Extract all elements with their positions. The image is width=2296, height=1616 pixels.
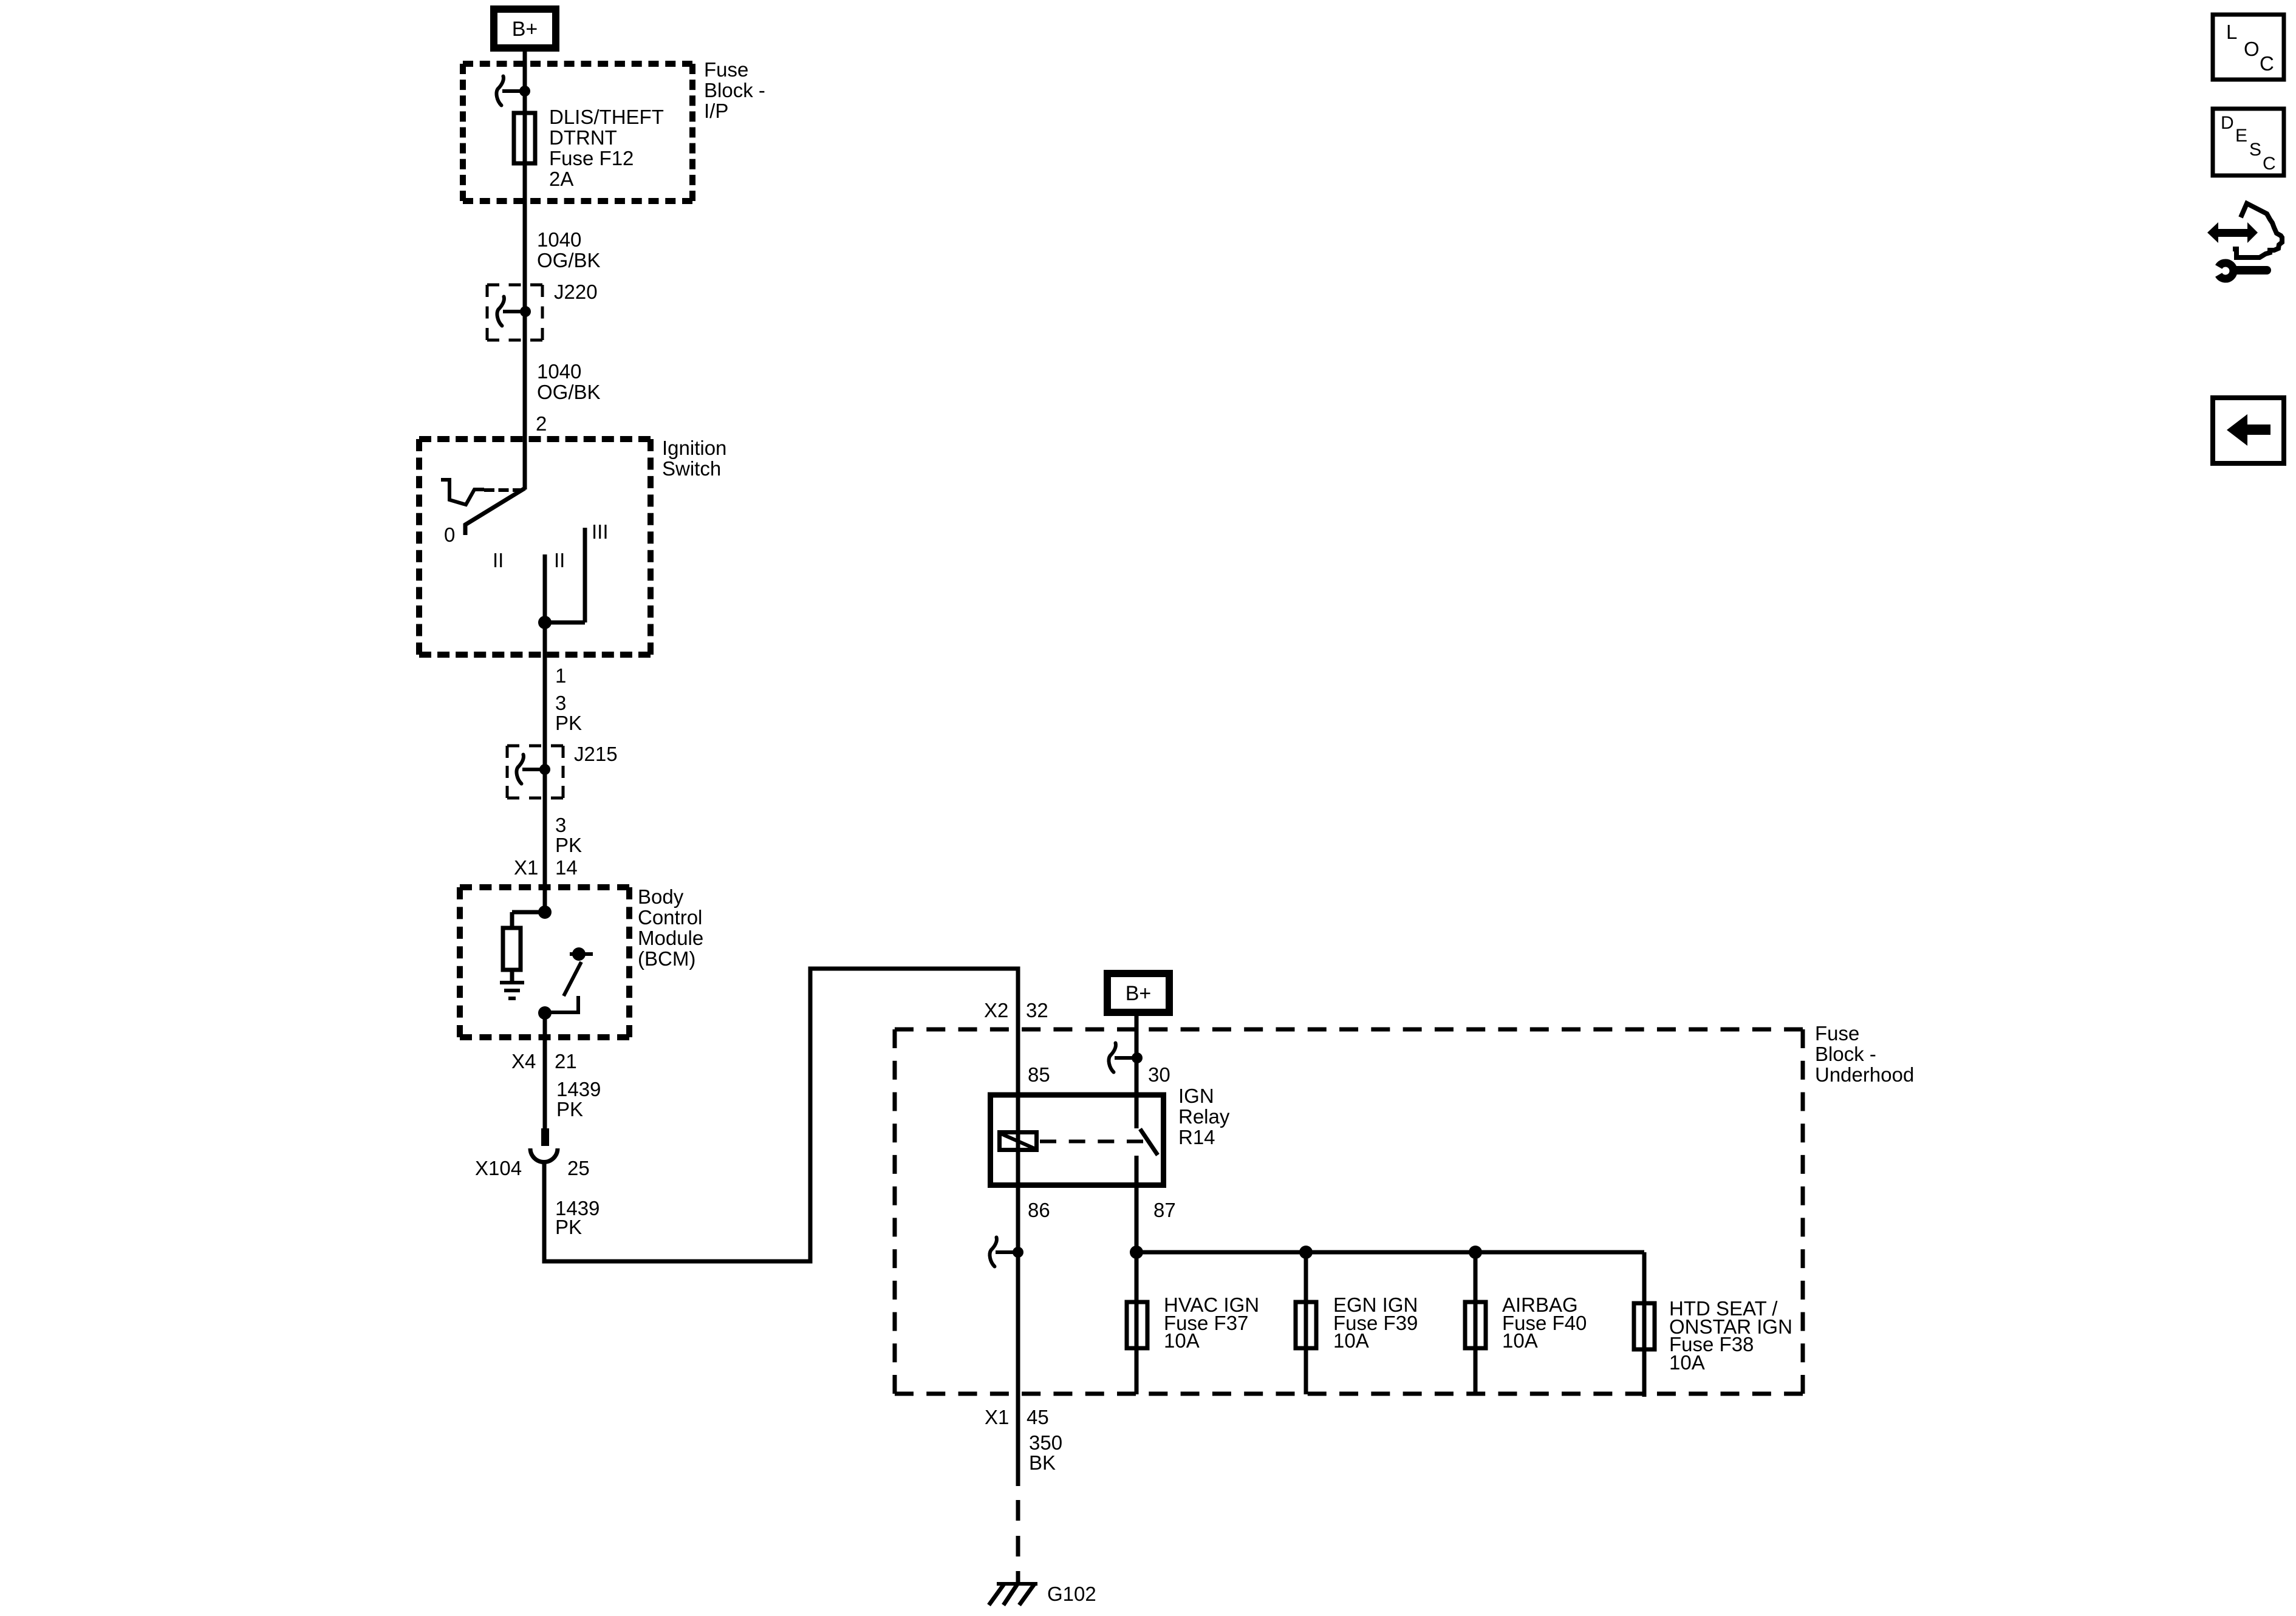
svg-text:C: C — [2260, 52, 2274, 75]
wire — [510, 912, 514, 928]
power symbol B+ (battery feed, Fuse Block - Underhood) — [1107, 973, 1169, 1012]
label fuse F12 value — [549, 106, 664, 190]
dashed mechanical link, relay coil to contact — [1040, 1140, 1143, 1144]
svg-text:PK: PK — [556, 1098, 583, 1120]
svg-text:10A: 10A — [1669, 1351, 1705, 1374]
svg-text:3: 3 — [555, 692, 566, 714]
junction node in ignition switch — [538, 616, 552, 629]
wire: resistor to internal ground — [510, 970, 514, 983]
svg-text:14: 14 — [555, 856, 578, 879]
svg-text:PK: PK — [555, 834, 582, 856]
ignition switch movable contact arm (position 0) — [465, 488, 525, 535]
svg-text:1040: 1040 — [537, 228, 581, 251]
svg-text:30: 30 — [1148, 1063, 1170, 1086]
svg-text:1040: 1040 — [537, 360, 581, 383]
ignition switch RUN contact wire — [543, 554, 547, 622]
icon button LOC — [2213, 15, 2284, 80]
wire: bus to fuse F40 — [1474, 1252, 1478, 1394]
splice/terminal hook at fuse block feed — [497, 77, 531, 106]
wire label 3 PK (lower) — [555, 814, 582, 856]
svg-text:S: S — [2249, 140, 2261, 160]
fuse F40 (AIRBAG 10A) — [1465, 1302, 1486, 1348]
svg-text:PK: PK — [555, 1216, 582, 1238]
svg-text:Underhood: Underhood — [1815, 1063, 1914, 1086]
svg-text:21: 21 — [555, 1050, 577, 1072]
splice J220 hook — [497, 297, 531, 326]
svg-text:Block -: Block - — [704, 79, 765, 101]
svg-text:1439: 1439 — [556, 1078, 601, 1100]
svg-text:3: 3 — [555, 814, 566, 836]
svg-text:C: C — [2263, 154, 2276, 174]
label Fuse Block - Underhood — [1815, 1022, 1914, 1086]
svg-text:I/P: I/P — [704, 100, 728, 122]
wire: relay 86 to X1 pin 45 (circuit 350 BK) — [1016, 1252, 1020, 1486]
dashed mechanical link, detent to contact arm — [484, 488, 523, 492]
junction node BCM input — [538, 905, 552, 919]
svg-text:Module: Module — [638, 927, 703, 949]
connector X1 pin 14 of BCM — [514, 856, 578, 879]
label fuse F40 — [1502, 1294, 1587, 1352]
svg-text:BK: BK — [1029, 1451, 1056, 1474]
svg-text:Fuse: Fuse — [704, 58, 748, 81]
svg-text:IGN: IGN — [1178, 1085, 1214, 1107]
wire label 1040 OG/BK (lower) — [537, 360, 601, 403]
fuse F39 (EGN IGN 10A) — [1296, 1302, 1316, 1348]
label Fuse Block - I/P — [704, 58, 765, 122]
wire label 1439 PK (upper) — [556, 1078, 601, 1120]
svg-text:X1: X1 — [985, 1406, 1009, 1428]
svg-text:DLIS/THEFT: DLIS/THEFT — [549, 106, 664, 128]
svg-text:Fuse F12: Fuse F12 — [549, 147, 634, 169]
svg-text:87: 87 — [1153, 1199, 1176, 1221]
svg-text:G102: G102 — [1047, 1583, 1096, 1605]
wire label 3 PK (upper) — [555, 692, 582, 734]
svg-text:Relay: Relay — [1178, 1105, 1230, 1128]
svg-text:10A: 10A — [1502, 1329, 1538, 1352]
label Body Control Module (BCM) — [638, 885, 703, 970]
wire (dashed continuation) to ground G102 — [1016, 1500, 1020, 1583]
BCM internal switch contact — [545, 947, 593, 1012]
svg-text:85: 85 — [1028, 1063, 1050, 1086]
wire: B+ to ignition switch (circuit 1040) — [523, 52, 527, 489]
svg-text:25: 25 — [567, 1157, 590, 1179]
wire: X104 to IGN relay coil (Z-run) — [544, 969, 1018, 1261]
svg-text:DTRNT: DTRNT — [549, 126, 617, 149]
ground G102 (chassis) — [989, 1583, 1037, 1605]
icon button back (left arrow) — [2213, 398, 2284, 463]
fuse F38 (HTD SEAT / ONSTAR IGN 10A) — [1634, 1303, 1655, 1349]
wire: ignition switch pin 1 to BCM (circuit 3 PK) — [543, 622, 547, 912]
svg-text:(BCM): (BCM) — [638, 947, 695, 970]
splice J215 hook — [517, 755, 551, 784]
connector X104 pin 25 (male/female halves) — [530, 1128, 558, 1162]
svg-text:II: II — [554, 549, 565, 571]
svg-text:J215: J215 — [574, 743, 618, 765]
component box Ignition Switch (dashed) — [419, 439, 651, 655]
junction node bus/F39 — [1299, 1246, 1313, 1259]
relay terminal labels 86 / 87 — [1028, 1199, 1176, 1221]
svg-text:D: D — [2221, 113, 2234, 133]
svg-text:Body: Body — [638, 885, 684, 908]
label fuse F38 — [1669, 1297, 1792, 1374]
svg-text:O: O — [2244, 38, 2260, 60]
wire: B+ to relay terminal 30 — [1135, 1014, 1139, 1128]
fuse F12 (DLIS/THEFT DTRNT 2A) — [514, 113, 535, 163]
svg-text:J220: J220 — [554, 281, 598, 303]
svg-text:II: II — [493, 549, 504, 571]
svg-text:Fuse: Fuse — [1815, 1022, 1859, 1045]
connector X4 pin 21 of BCM — [511, 1050, 577, 1072]
label Ignition Switch — [662, 437, 726, 480]
svg-text:Block -: Block - — [1815, 1043, 1876, 1065]
svg-text:10A: 10A — [1333, 1329, 1369, 1352]
svg-text:45: 45 — [1027, 1406, 1049, 1428]
svg-text:III: III — [592, 520, 609, 543]
power symbol B+ (battery feed, Fuse Block - I/P) — [494, 9, 556, 48]
svg-text:32: 32 — [1026, 999, 1048, 1021]
terminal hook at relay 30 feed — [1109, 1043, 1143, 1072]
wire: bus to fuse F38 — [1642, 1252, 1647, 1397]
junction node bus/F40 — [1469, 1246, 1482, 1259]
wire label 1439 PK (lower) — [555, 1197, 600, 1238]
svg-text:B+: B+ — [512, 18, 538, 41]
component box Body Control Module BCM (dashed) — [460, 887, 629, 1037]
junction node bus/87 — [1130, 1246, 1143, 1259]
splice box J220 (dashed) — [487, 285, 542, 340]
svg-text:X2: X2 — [984, 999, 1008, 1021]
relay R14 coil — [1000, 1133, 1037, 1150]
wire: bus to fuse F39 — [1304, 1252, 1308, 1394]
svg-text:OG/BK: OG/BK — [537, 249, 601, 271]
svg-text:350: 350 — [1029, 1431, 1062, 1454]
svg-text:10A: 10A — [1164, 1329, 1200, 1352]
wire: bus to fuse F37 — [1135, 1252, 1139, 1394]
terminal hook at relay 86 ground side — [990, 1238, 1024, 1267]
relay R14 (IGN Relay) body — [991, 1095, 1164, 1185]
wire bus: relay 87 to ignition fuses — [1136, 1250, 1644, 1255]
wire label 350 BK — [1029, 1431, 1062, 1474]
wire label 1040 OG/BK (upper) — [537, 228, 601, 271]
svg-text:Ignition: Ignition — [662, 437, 726, 459]
svg-text:PK: PK — [555, 712, 582, 734]
component box Fuse Block - I/P (dashed) — [463, 64, 692, 201]
connector X2 pin 32 of fuse block underhood — [984, 999, 1048, 1021]
component box Fuse Block - Underhood (dashed) — [895, 1029, 1803, 1394]
junction node BCM output — [538, 1006, 552, 1020]
connector X1 pin 45 of fuse block underhood — [985, 1406, 1049, 1428]
fuse F37 (HVAC IGN 10A) — [1127, 1302, 1147, 1348]
svg-text:X104: X104 — [475, 1157, 522, 1179]
svg-text:B+: B+ — [1126, 982, 1152, 1005]
label IGN Relay R14 — [1178, 1085, 1230, 1148]
svg-text:E: E — [2235, 126, 2247, 146]
resistor (BCM internal pull-down) — [503, 928, 521, 970]
svg-text:Switch: Switch — [662, 457, 721, 480]
svg-text:X4: X4 — [511, 1050, 536, 1072]
wire: III contact to output junction — [545, 621, 585, 625]
svg-text:OG/BK: OG/BK — [537, 381, 601, 403]
svg-text:2A: 2A — [549, 168, 573, 190]
relay R14 movable contact (N.O.) — [1140, 1129, 1158, 1155]
wire: relay 87 to fuse bus — [1135, 1156, 1139, 1252]
ground (BCM internal) — [500, 983, 524, 998]
svg-text:X1: X1 — [514, 856, 538, 879]
icon button DESC — [2213, 109, 2284, 176]
svg-text:1: 1 — [555, 664, 566, 687]
label fuse F39 — [1333, 1294, 1418, 1352]
ignition switch detent symbol — [441, 480, 484, 505]
svg-text:Control: Control — [638, 906, 702, 929]
ignition switch START contact wire — [583, 528, 587, 622]
label fuse F37 — [1164, 1294, 1259, 1352]
svg-text:0: 0 — [444, 523, 455, 546]
icon car/service (double arrow, hood outline, wrench) — [2207, 203, 2282, 279]
svg-text:R14: R14 — [1178, 1126, 1215, 1148]
relay terminal labels 85 / 30 — [1028, 1063, 1170, 1086]
svg-text:L: L — [2226, 21, 2237, 43]
wire: branch to pull-down resistor — [512, 910, 545, 915]
wire: BCM X4 pin 21 output (circuit 1439 PK) — [543, 1013, 547, 1128]
svg-text:2: 2 — [536, 412, 547, 435]
splice box J215 (dashed) — [507, 746, 563, 798]
svg-text:86: 86 — [1028, 1199, 1050, 1221]
